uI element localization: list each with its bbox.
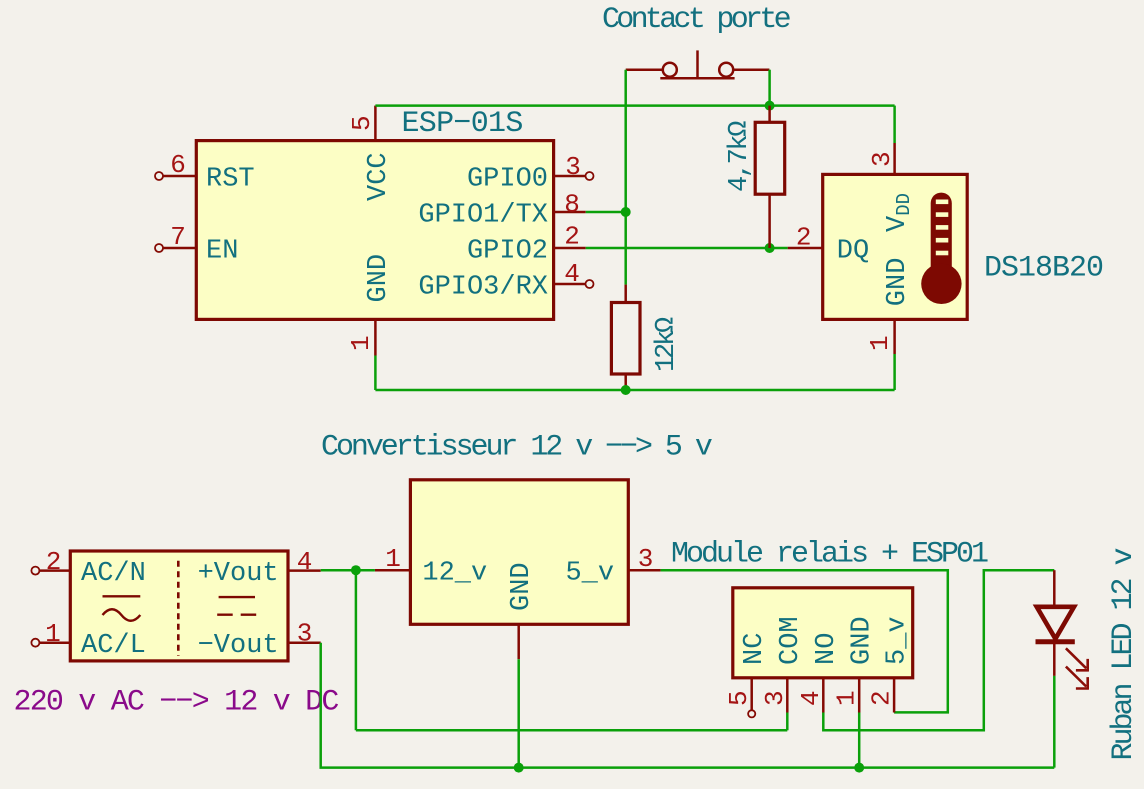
junction R2/GND	[621, 385, 631, 395]
resistor R2 bottom stub	[624, 374, 627, 390]
switch SW1 right contact circle	[719, 63, 733, 77]
wire ESP GND down	[374, 356, 377, 391]
AC symbol sine	[103, 609, 141, 621]
pin 3 GPIO0 wire	[554, 175, 586, 178]
LED D1 cathode bar	[1036, 639, 1075, 644]
pin 2 AC/N wire	[39, 569, 70, 572]
svg-text:8: 8	[564, 189, 580, 219]
wire 12v to COM	[356, 729, 787, 732]
svg-text:DQ: DQ	[837, 236, 869, 266]
pin 2 GPIO2 wire	[554, 247, 586, 250]
wire GND horizontal	[375, 389, 894, 392]
svg-text:2: 2	[564, 222, 580, 252]
IC DS18B20 body	[823, 174, 968, 319]
switch SW1 left pin	[626, 68, 663, 71]
svg-text:Ruban LED 12 v: Ruban LED 12 v	[1107, 548, 1141, 760]
pin 1 12_v stub	[375, 569, 411, 572]
pin 4 GPIO3/RX open circle	[586, 280, 594, 288]
svg-text:4: 4	[564, 259, 580, 289]
svg-text:3: 3	[867, 151, 897, 167]
svg-text:−Vout: −Vout	[198, 631, 279, 661]
svg-text:5: 5	[347, 115, 377, 131]
resistor R2 body 12k	[611, 303, 640, 375]
switch SW1 actuator stem	[696, 50, 699, 78]
LED D1 triangle	[1037, 607, 1074, 639]
pin 3 5_v stub	[628, 569, 660, 572]
AC/DC module body	[70, 551, 288, 661]
junction conv GND	[514, 763, 524, 773]
svg-text:GND: GND	[364, 254, 394, 303]
svg-text:4,7kΩ: 4,7kΩ	[725, 121, 755, 192]
switch SW1 right pin	[733, 68, 769, 71]
pin 4 GPIO3/RX wire	[554, 283, 586, 286]
pin 5 VCC stub	[374, 106, 377, 141]
svg-text:2: 2	[796, 223, 812, 253]
svg-text:220 v AC −−> 12 v DC: 220 v AC −−> 12 v DC	[14, 686, 339, 720]
svg-text:AC/L: AC/L	[81, 631, 146, 661]
LED D1 top stub	[1053, 570, 1056, 605]
svg-text:12kΩ: 12kΩ	[652, 317, 682, 372]
svg-text:Contact porte: Contact porte	[602, 3, 791, 37]
pin 2 5_v stub (relay)	[893, 678, 896, 713]
svg-text:GPIO0: GPIO0	[467, 164, 548, 194]
svg-text:VCC: VCC	[364, 152, 394, 201]
svg-text:7: 7	[170, 222, 186, 252]
svg-text:EN: EN	[206, 236, 238, 266]
svg-text:3: 3	[638, 544, 654, 574]
converter GND stub	[517, 624, 520, 659]
svg-text:GND: GND	[507, 562, 537, 611]
wire NO to LED	[823, 570, 1054, 730]
svg-text:+Vout: +Vout	[198, 559, 279, 589]
wire VDD drop	[893, 106, 896, 143]
DC symbol solid line	[219, 596, 255, 598]
pin 3 COM stub	[786, 678, 789, 713]
pin 1 GND stub	[374, 319, 377, 355]
svg-text:2: 2	[46, 547, 62, 577]
svg-text:2: 2	[867, 690, 897, 706]
svg-text:GPIO3/RX: GPIO3/RX	[418, 272, 548, 302]
svg-text:6: 6	[170, 150, 186, 180]
pin 4 +Vout wire	[288, 569, 321, 572]
pin 2 DQ stub	[788, 247, 823, 250]
thermometer icon	[921, 193, 961, 304]
wire relay GND down	[858, 713, 861, 768]
pin 1 AC/L wire	[39, 641, 70, 644]
pin 4 NO stub	[822, 678, 825, 713]
junction 12v	[351, 565, 361, 575]
pin 5 NC stub	[750, 678, 753, 710]
pin 3 GPIO0 open circle	[586, 172, 594, 180]
svg-text:RST: RST	[206, 164, 255, 194]
resistor R1 top stub	[768, 106, 771, 123]
svg-text:AC/N: AC/N	[81, 559, 146, 589]
LED D1 bottom stub	[1053, 642, 1056, 676]
resistor R1 body 4,7k	[755, 122, 785, 194]
svg-text:Convertisseur 12 v −−> 5 v: Convertisseur 12 v −−> 5 v	[321, 431, 712, 465]
svg-text:12_v: 12_v	[422, 559, 487, 589]
resistor R1 bottom stub	[768, 194, 771, 248]
pin 7 EN open circle	[155, 244, 163, 252]
relay module body	[733, 588, 913, 678]
svg-text:COM: COM	[776, 616, 806, 665]
svg-text:NC: NC	[740, 633, 770, 665]
AC symbol line	[103, 595, 141, 597]
pin 6 RST wire	[163, 175, 196, 178]
wire button right vertical	[768, 70, 771, 106]
svg-text:5_v: 5_v	[883, 616, 913, 665]
wire GPIO2 to DQ	[586, 247, 788, 250]
pin 5 NC open circle	[748, 710, 755, 717]
svg-text:GPIO1/TX: GPIO1/TX	[418, 200, 548, 230]
wire +Vout to conv	[321, 569, 375, 572]
converter U? body	[410, 480, 628, 625]
svg-text:NO: NO	[812, 633, 842, 665]
wire button left vertical	[624, 70, 627, 285]
svg-text:Module relais + ESP01: Module relais + ESP01	[671, 538, 988, 572]
svg-text:5: 5	[724, 690, 754, 706]
svg-text:ESP−01S: ESP−01S	[402, 107, 523, 141]
junction GPIO1	[621, 207, 631, 217]
LED D1 emission arrow 2	[1066, 667, 1089, 690]
svg-text:4: 4	[796, 690, 826, 706]
pin 1 GND stub (DS)	[893, 319, 896, 354]
DC symbol dashed line	[217, 614, 256, 616]
wire COM up	[786, 713, 789, 731]
pin 6 RST open circle	[155, 172, 163, 180]
switch SW1 left contact circle	[663, 63, 677, 77]
junction DQ/R1	[765, 243, 775, 253]
svg-text:1: 1	[346, 335, 376, 351]
switch SW1 actuator bar	[660, 77, 734, 80]
svg-text:1: 1	[865, 335, 895, 351]
wire 5v out	[661, 570, 948, 712]
svg-text:4: 4	[297, 547, 313, 577]
wire -Vout down	[321, 643, 1055, 768]
svg-text:1: 1	[45, 619, 61, 649]
svg-text:1: 1	[385, 544, 401, 574]
pin 1 GND stub (relay)	[858, 678, 861, 713]
svg-text:5_v: 5_v	[565, 559, 614, 589]
svg-text:3: 3	[760, 690, 790, 706]
svg-text:GND: GND	[848, 616, 878, 665]
pin 1 AC/L open circle	[31, 639, 39, 647]
pin 7 EN wire	[163, 247, 196, 250]
svg-text:3: 3	[565, 152, 581, 182]
svg-text:DS18B20: DS18B20	[984, 252, 1103, 286]
junction relay GND	[854, 763, 864, 773]
svg-text:GPIO2: GPIO2	[467, 236, 548, 266]
wire VCC horizontal	[375, 104, 894, 107]
pin 2 AC/N open circle	[31, 567, 39, 575]
IC U? ESP-01S body	[196, 141, 553, 320]
wire GPIO1 to vertical	[586, 211, 626, 214]
resistor R2 top stub	[624, 285, 627, 303]
AC/DC divider dashed line	[177, 561, 180, 656]
wire conv GND down	[517, 659, 520, 767]
svg-text:GND: GND	[883, 258, 913, 307]
wire DS GND up	[893, 354, 896, 390]
pin 8 GPIO1/TX wire	[554, 211, 586, 214]
junction VCC/R1	[765, 101, 775, 111]
wire 12v down	[355, 570, 358, 730]
LED D1 emission arrow 1	[1066, 648, 1089, 671]
svg-text:1: 1	[832, 690, 862, 706]
pin 3 -Vout wire	[288, 641, 321, 644]
svg-text:3: 3	[297, 619, 313, 649]
wire LED down	[1053, 676, 1056, 768]
pin 3 VDD stub	[893, 143, 896, 174]
